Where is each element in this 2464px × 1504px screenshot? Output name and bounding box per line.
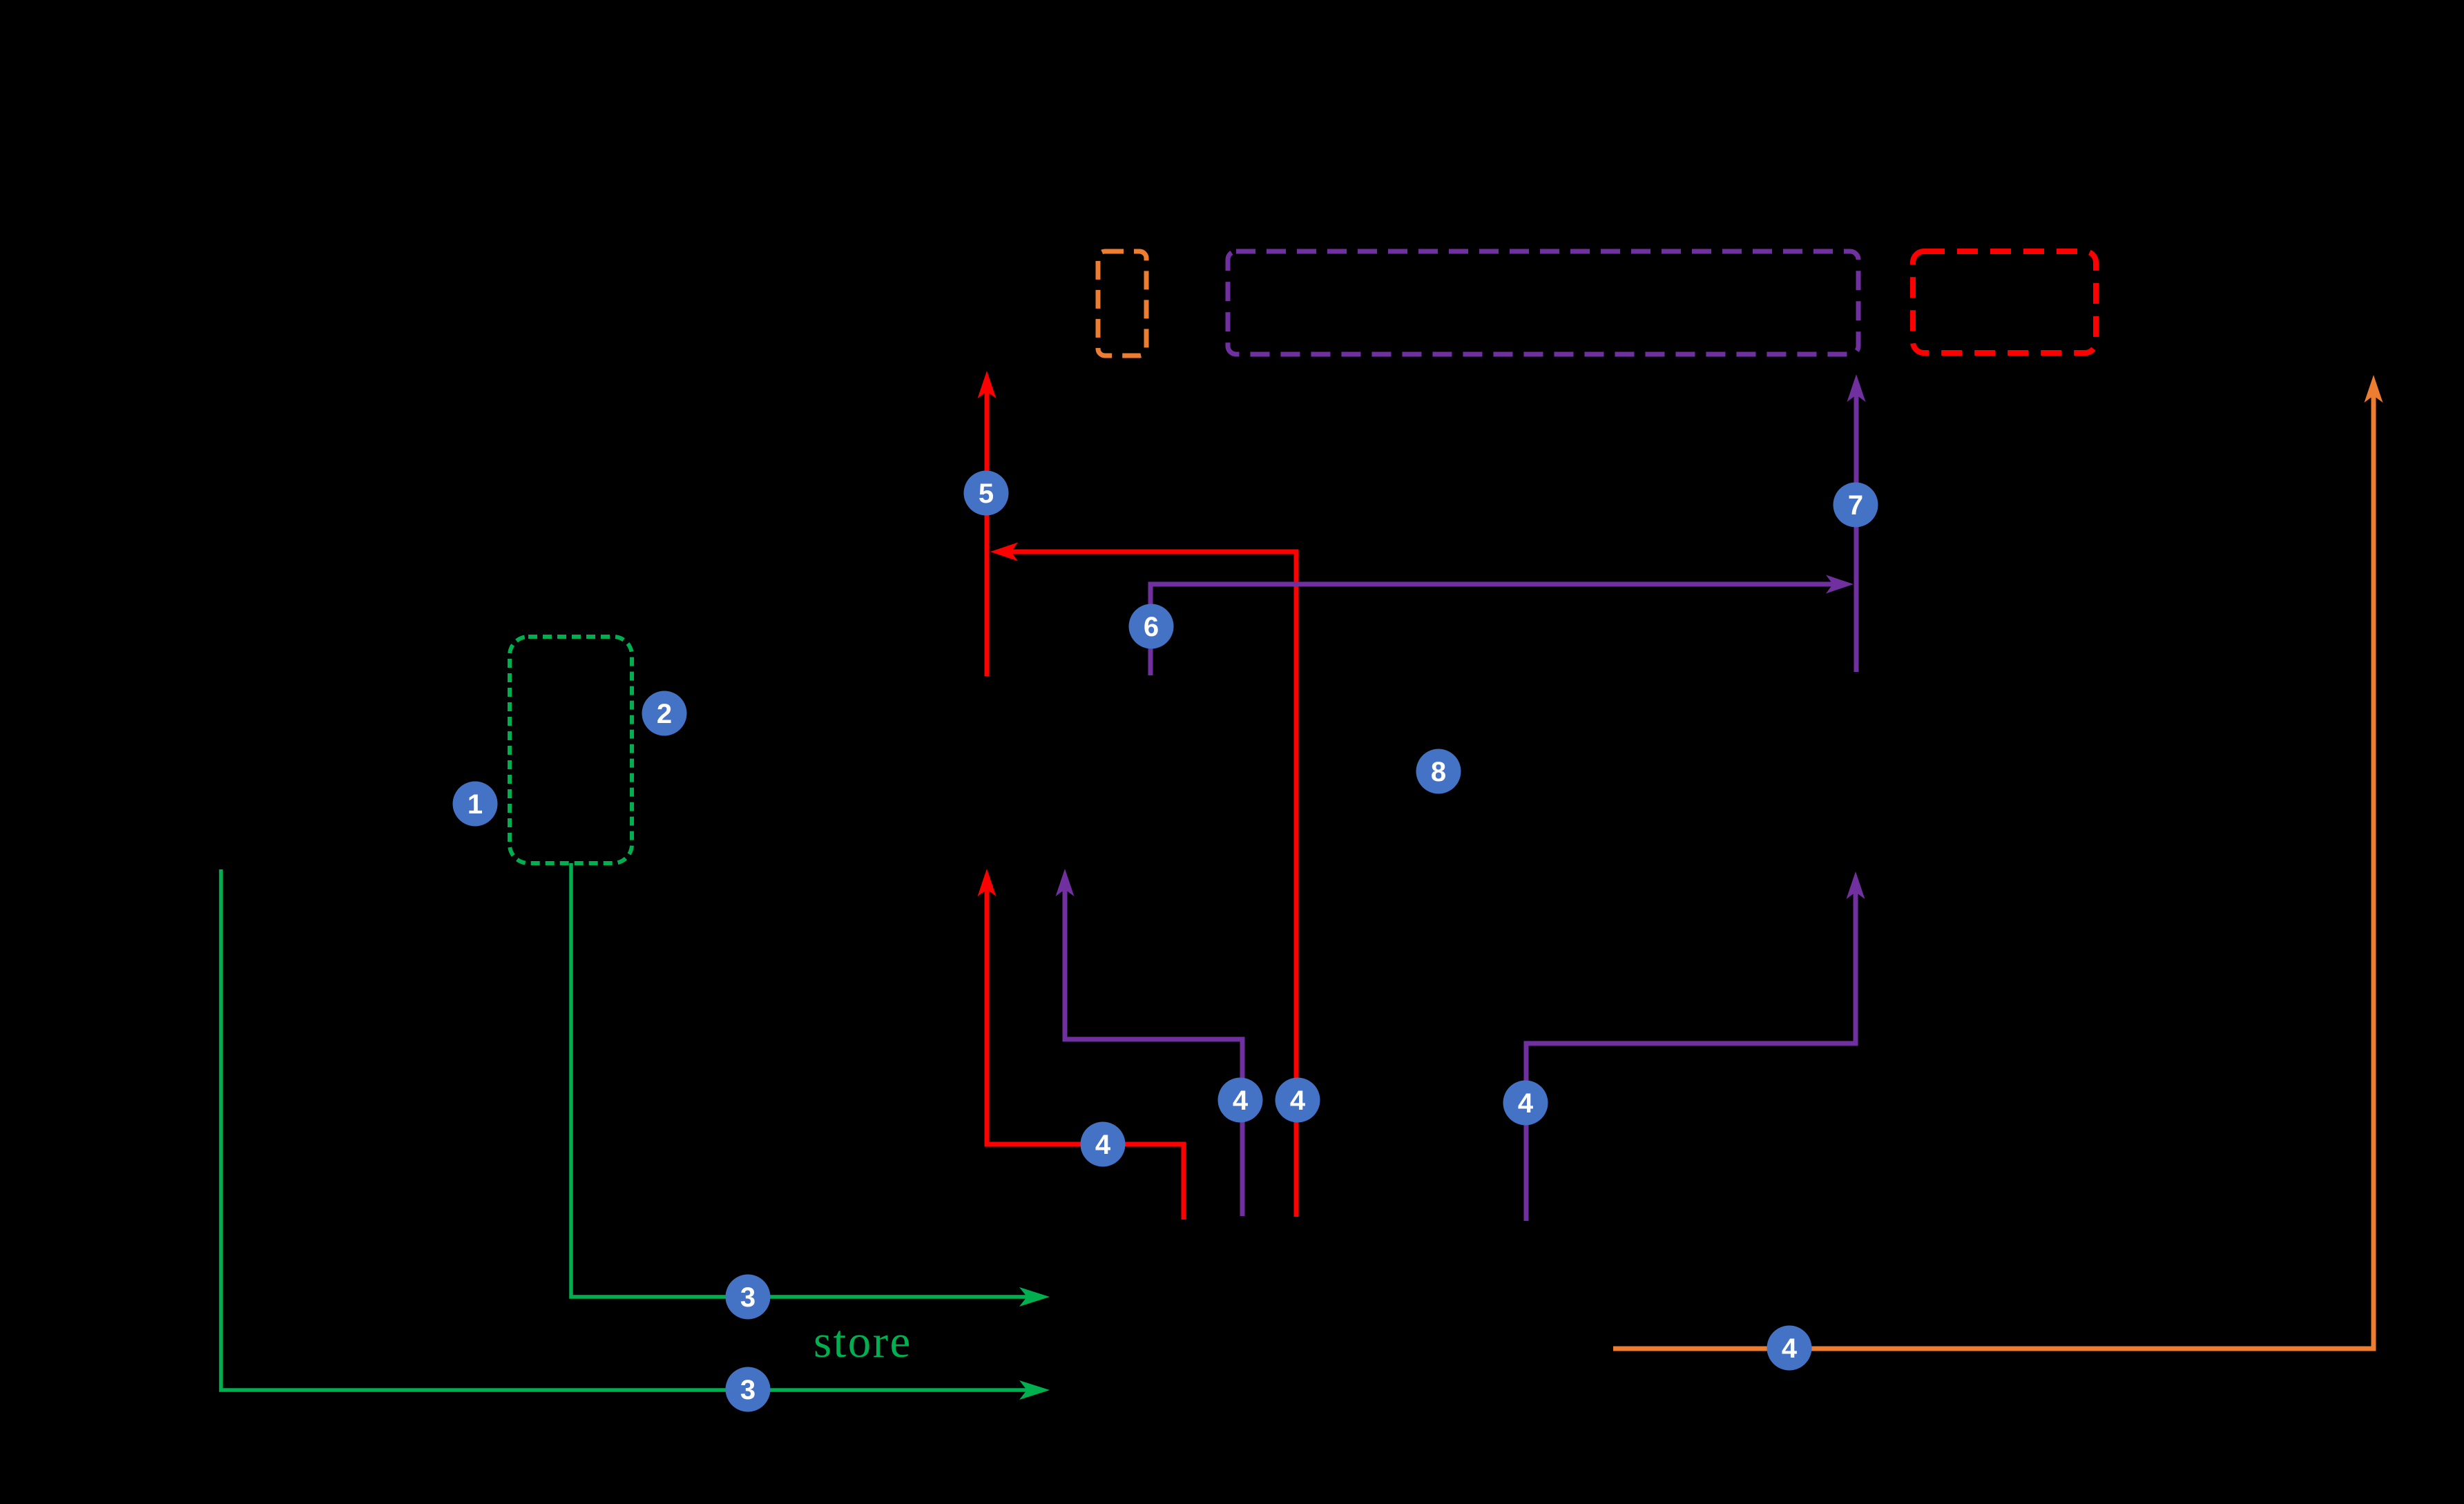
svg-text:2: 2 [657, 699, 672, 729]
wire: purple elbow arrow P1 (to the right) [1151, 575, 1854, 676]
svg-text:4: 4 [1095, 1130, 1111, 1160]
wire: purple elbow arrow P4 (lower right) [1526, 871, 1865, 1221]
node 3b [726, 1367, 771, 1412]
node 4d [1503, 1081, 1548, 1126]
wire: green elbow arrow G2 (left tall) [221, 869, 1050, 1400]
wire: red elbow arrow R2 (horizontal left into vertical) [990, 543, 1296, 1217]
svg-text:6: 6 [1144, 612, 1159, 642]
orange dashed box (top) [1098, 251, 1146, 356]
purple dashed box (top wide) [1228, 251, 1858, 354]
wire: green elbow arrow G1 (from green box) [571, 863, 1050, 1307]
wire: red vertical arrow R1 (esp) [978, 371, 997, 676]
svg-text:4: 4 [1290, 1086, 1306, 1116]
svg-text:3: 3 [740, 1282, 755, 1313]
node 4a [1081, 1122, 1126, 1167]
wire: red elbow arrow R3 (lower left) [978, 869, 1184, 1219]
svg-text:4: 4 [1518, 1088, 1534, 1119]
wire: orange elbow arrow O1 [1613, 375, 2383, 1349]
node 3a [726, 1275, 771, 1320]
wire: purple elbow arrow P3 (lower middle) [1056, 869, 1243, 1216]
svg-text:3: 3 [740, 1375, 755, 1405]
svg-text:4: 4 [1782, 1333, 1798, 1364]
green dashed box [510, 637, 632, 863]
svg-text:7: 7 [1848, 490, 1863, 521]
node 5 [964, 471, 1009, 516]
node 4e [1767, 1326, 1812, 1371]
svg-text:5: 5 [979, 479, 994, 509]
svg-text:store: store [814, 1316, 912, 1367]
node 4b [1218, 1078, 1263, 1123]
node 6 [1129, 604, 1174, 649]
svg-text:4: 4 [1233, 1086, 1249, 1116]
node 4c [1276, 1078, 1320, 1123]
node 1 [453, 782, 498, 827]
svg-text:8: 8 [1431, 757, 1446, 787]
node 8 [1416, 749, 1461, 794]
node 2 [642, 691, 687, 736]
svg-text:1: 1 [468, 789, 483, 820]
red dashed box (top right) [1913, 251, 2096, 353]
wire: purple vertical arrow P2 [1847, 374, 1866, 672]
node 7 [1833, 483, 1878, 528]
